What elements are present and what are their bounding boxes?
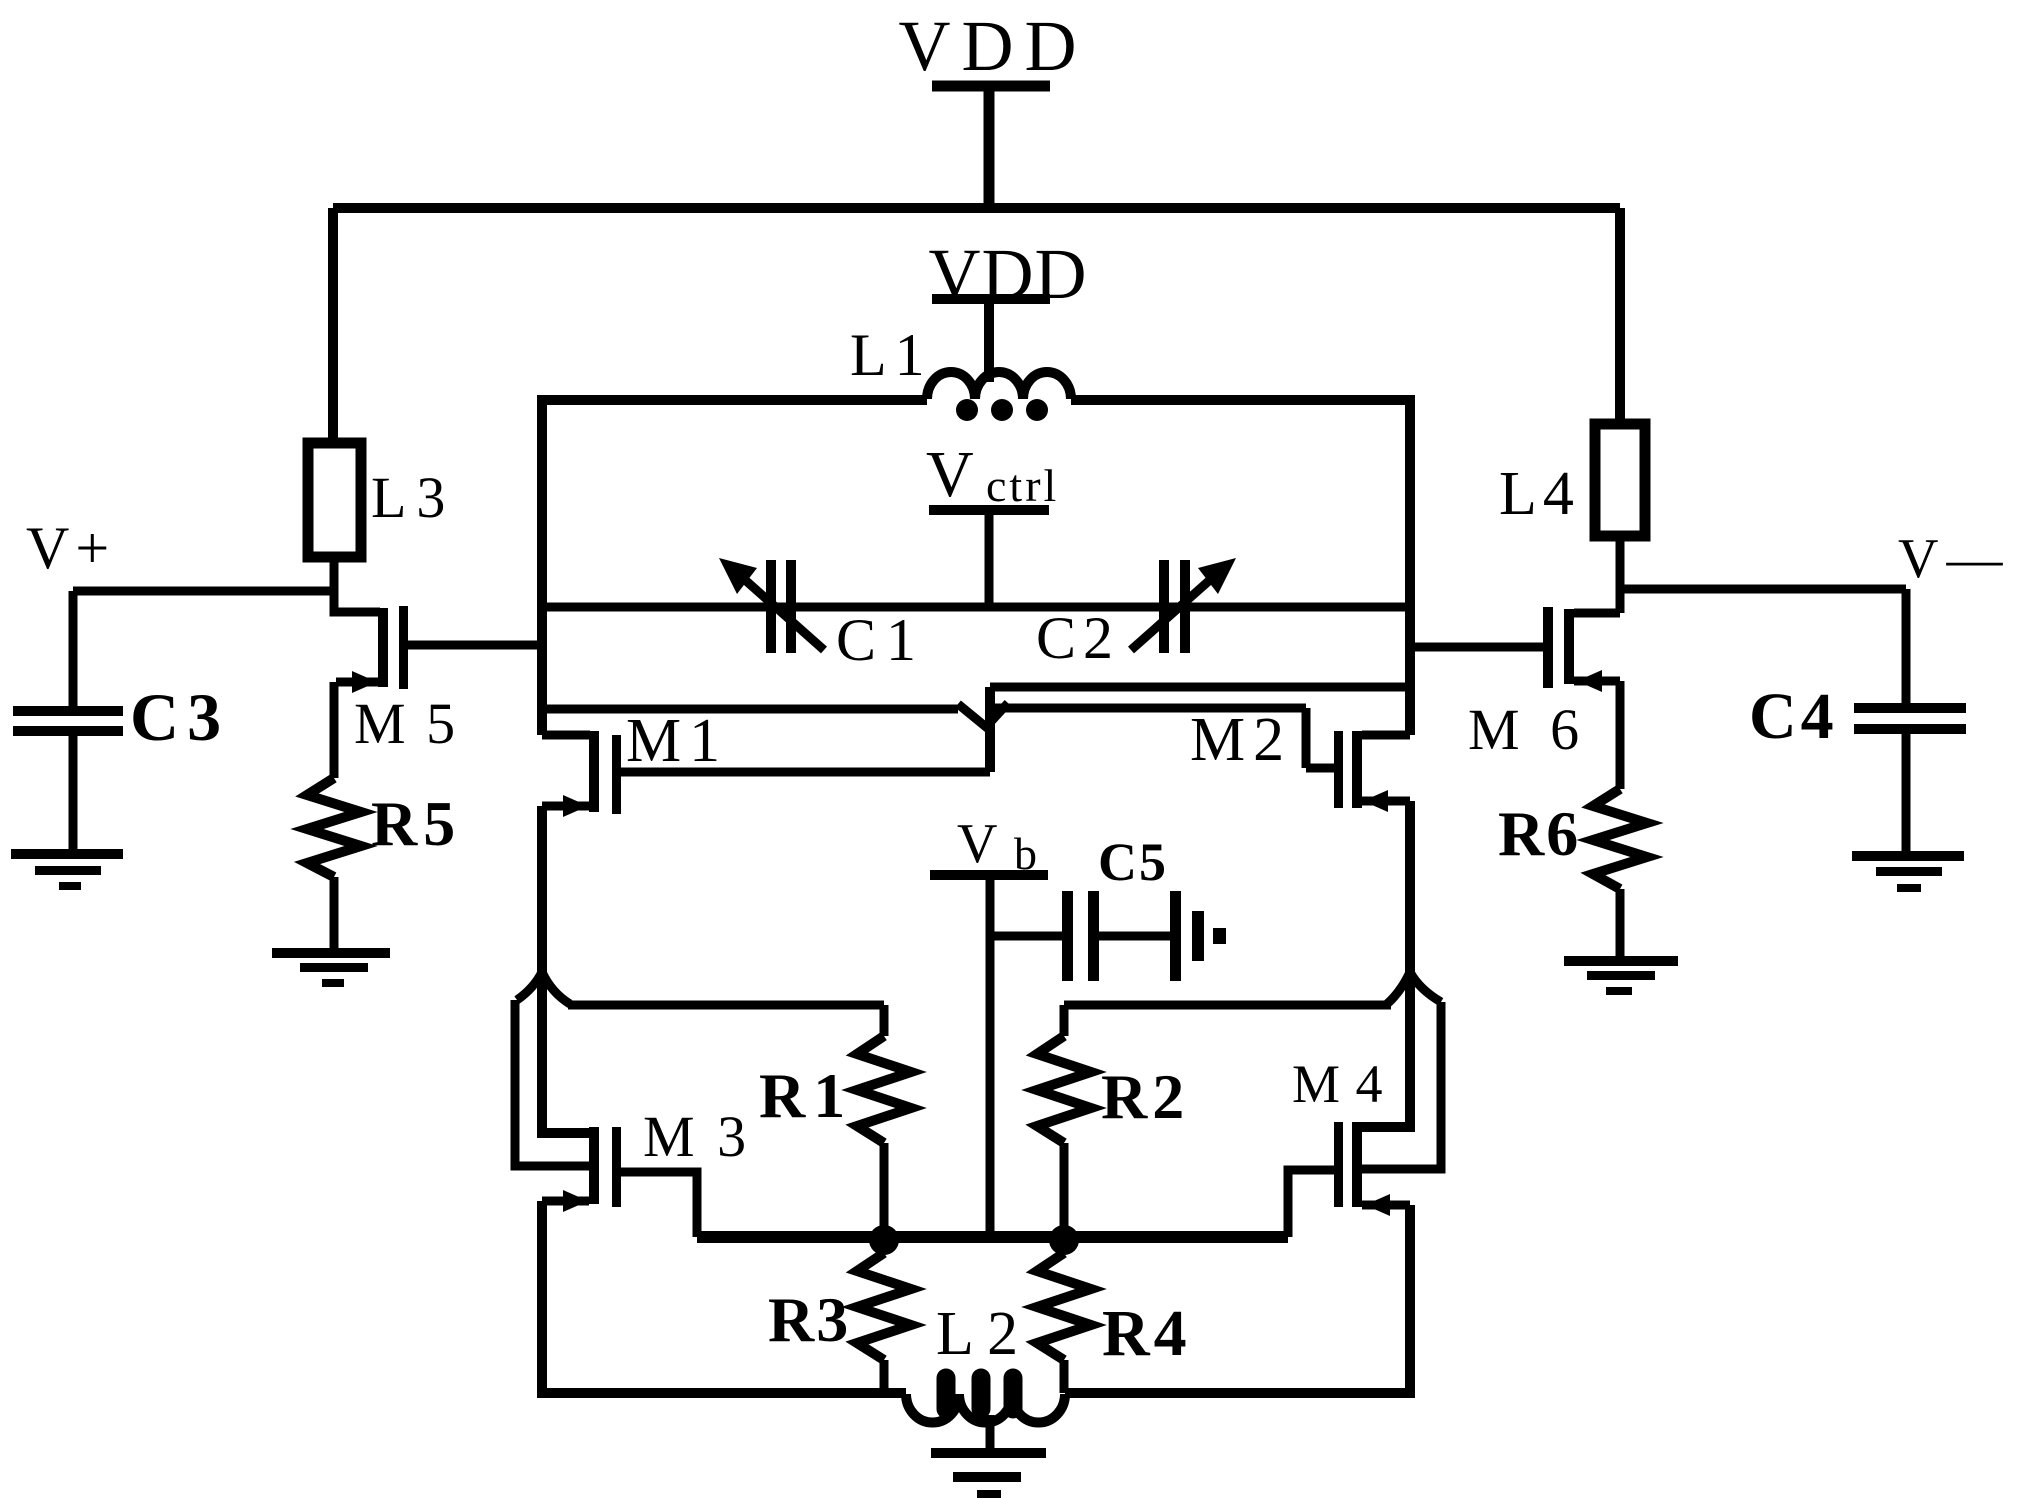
power VDD top supply <box>899 6 1088 208</box>
svg-text:L 2: L 2 <box>936 1300 1018 1368</box>
wire varactor row <box>542 603 1410 612</box>
capacitor C3 <box>13 679 229 755</box>
node V- output wire <box>1620 528 2010 590</box>
svg-text:C4: C4 <box>1749 680 1838 753</box>
svg-text:ctrl: ctrl <box>986 460 1059 511</box>
svg-text:M 3: M 3 <box>643 1104 750 1169</box>
svg-text:C1: C1 <box>836 607 926 673</box>
transistor M6 <box>1415 607 1620 762</box>
resistor R6 <box>1498 789 1647 889</box>
wire V+ down to C3 <box>69 591 78 706</box>
svg-text:R1: R1 <box>759 1060 853 1131</box>
wire tank box bottom edge <box>542 1388 1410 1398</box>
node Vb supply <box>930 813 1048 1237</box>
inductor L1 <box>850 322 1071 421</box>
svg-text:R4: R4 <box>1102 1297 1191 1370</box>
wire C4 to ground <box>1902 734 1911 851</box>
wire cross-couple left (M1 drain to hop) <box>542 705 958 714</box>
resistor R1 <box>759 1005 911 1232</box>
svg-text:C3: C3 <box>130 679 229 755</box>
wire left edge M1 source to M3 <box>537 806 547 975</box>
svg-text:M2: M2 <box>1190 706 1292 774</box>
svg-text:V: V <box>957 813 997 875</box>
svg-text:VDD: VDD <box>899 6 1088 86</box>
wire R6 to ground <box>1616 889 1625 956</box>
svg-text:C2: C2 <box>1036 605 1120 671</box>
node junction dot B <box>1049 1225 1079 1255</box>
wire V- down to C4 <box>1902 589 1911 703</box>
ground (C4) <box>1852 851 1964 892</box>
wire right edge M4 source to box bottom <box>1405 1205 1415 1398</box>
wire R1 top line <box>568 1001 884 1010</box>
wire cross-couple lower right (hop to M2 gate) <box>995 708 1334 768</box>
varactor C1 <box>719 558 926 673</box>
svg-text:L1: L1 <box>850 322 933 388</box>
wire bottom bias line <box>697 1231 1288 1243</box>
inductor L3 <box>308 443 455 557</box>
node Vctrl supply <box>926 438 1059 607</box>
wire cross-couple riser <box>985 687 995 772</box>
transistor M5 <box>336 606 542 756</box>
wire tank box right edge <box>1405 395 1415 735</box>
node V+ output wire <box>26 515 334 591</box>
wire M5 source to R5 <box>330 682 339 778</box>
wire M1 gate line <box>621 768 990 777</box>
power VDD inner supply <box>929 234 1088 382</box>
inductor L2 <box>906 1300 1065 1423</box>
wire R2 top line <box>1064 1001 1391 1010</box>
svg-text:L4: L4 <box>1499 460 1580 528</box>
svg-text:R6: R6 <box>1498 798 1580 869</box>
node junction dot A <box>869 1225 899 1255</box>
wire left branch from rail to L3 <box>328 208 338 447</box>
svg-text:M 5: M 5 <box>354 691 458 756</box>
resistor R5 <box>307 778 461 877</box>
capacitor C5 <box>990 832 1226 981</box>
svg-text:R5: R5 <box>371 788 461 859</box>
capacitor C4 <box>1749 680 1966 753</box>
resistor R4 <box>1037 1240 1191 1393</box>
ground (C3) <box>11 849 123 890</box>
resistor R2 <box>1037 1005 1189 1232</box>
ground (R5) <box>272 948 390 987</box>
inductor L4 <box>1499 424 1645 536</box>
wire R5 to ground <box>330 877 339 948</box>
svg-text:V+: V+ <box>26 515 115 581</box>
svg-text:R2: R2 <box>1101 1061 1189 1132</box>
ground (L2) <box>931 1448 1046 1498</box>
wire M6 source to R6 <box>1616 681 1625 789</box>
node crossover hop arrow <box>958 703 1008 727</box>
wire L3 to V+ node and M5 drain <box>334 557 380 612</box>
node M3 hook junction <box>517 972 570 1004</box>
wire C3 to ground <box>69 736 78 851</box>
transistor M4 <box>1292 972 1410 1216</box>
transistor M3 <box>542 972 750 1212</box>
node M4 hook junction <box>1387 972 1441 1004</box>
wire top rail <box>333 203 1620 213</box>
svg-text:M 6: M 6 <box>1468 697 1587 762</box>
ground (R6) <box>1564 956 1678 995</box>
wire right branch from rail to L4 <box>1615 208 1625 428</box>
svg-text:C5: C5 <box>1098 832 1168 892</box>
resistor R3 <box>768 1240 911 1393</box>
wire M4 gate to bottom bias line <box>1288 1170 1334 1237</box>
transistor M1 <box>542 707 728 817</box>
wire M4 bypass branch <box>1362 1002 1441 1169</box>
svg-text:V—: V— <box>1898 528 2010 590</box>
wire right edge M2 source to M4 <box>1405 801 1415 975</box>
wire M3 gate to bottom bias line <box>621 1172 697 1237</box>
svg-text:R3: R3 <box>768 1284 850 1355</box>
svg-text:L3: L3 <box>371 465 455 530</box>
svg-text:V: V <box>926 438 974 511</box>
wire left edge M3 source to box bottom <box>537 1201 547 1398</box>
wire L2 centre tap to ground <box>986 1415 995 1448</box>
wire tank box left edge <box>537 395 547 735</box>
wire M3 bypass branch <box>515 1000 590 1166</box>
transistor M2 <box>1190 706 1410 812</box>
svg-text:M1: M1 <box>626 707 728 775</box>
wire cross-couple upper right (to M2 drain node) <box>990 683 1410 692</box>
wire L4 to V- node <box>1616 536 1625 613</box>
svg-text:M 4: M 4 <box>1292 1054 1384 1114</box>
wire tank box top edge <box>542 395 1410 405</box>
varactor C2 <box>1036 558 1236 671</box>
